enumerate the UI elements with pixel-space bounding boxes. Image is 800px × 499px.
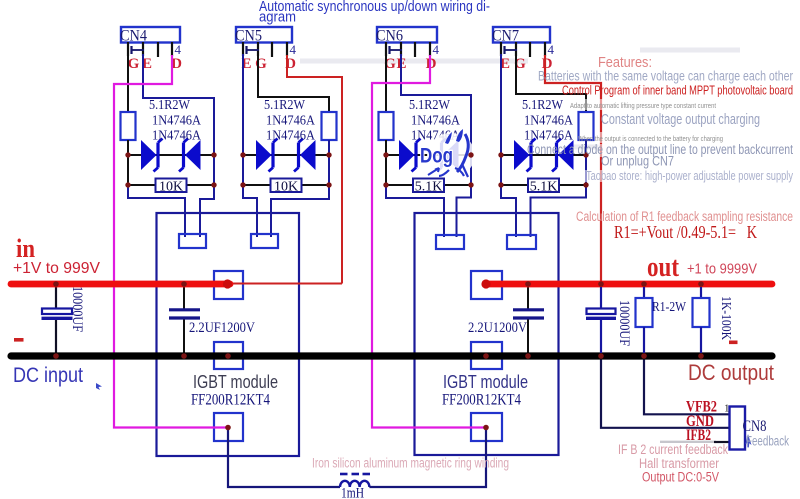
svg-text:out: out bbox=[647, 252, 680, 283]
svg-text:Iron silicon aluminum magnetic: Iron silicon aluminum magnetic ring wind… bbox=[312, 456, 509, 471]
watermark white bands bbox=[566, 99, 795, 182]
wire CN4-G left rail bbox=[127, 54, 129, 113]
wire GND sense from output cap node to CN8 bbox=[601, 360, 729, 428]
CN5 pin 2 (G) bbox=[257, 42, 259, 56]
inductor L1 1mH bbox=[340, 474, 370, 487]
svg-text:Adapt to automatic lifting pre: Adapt to automatic lifting pressure type… bbox=[570, 101, 717, 110]
junction dots on red bus bbox=[53, 281, 704, 287]
svg-text:+1 to 9999V: +1 to 9999V bbox=[687, 262, 757, 278]
svg-text:5.1R2W: 5.1R2W bbox=[264, 98, 306, 113]
wire CN5-G top bend to right rail bbox=[258, 54, 329, 113]
resistor 10K (CN5) bbox=[271, 179, 302, 195]
CN7 pin 3 bbox=[529, 42, 531, 57]
capacitor C4 wire bottom bbox=[600, 320, 602, 353]
svg-text:5.1R2W: 5.1R2W bbox=[522, 98, 564, 113]
U2 collector terminal box bbox=[471, 271, 502, 299]
resistor 10K row wire N2 bbox=[243, 184, 329, 186]
svg-text:10K: 10K bbox=[274, 180, 298, 195]
svg-text:DC input: DC input bbox=[13, 364, 83, 387]
svg-text:10000UF: 10000UF bbox=[616, 300, 632, 346]
watermark Dog bbox=[420, 129, 475, 177]
svg-text:Constant voltage output chargi: Constant voltage output charging bbox=[601, 112, 760, 128]
wire left rail N3 lower bbox=[386, 185, 444, 237]
svg-text:FF200R12KT4: FF200R12KT4 bbox=[191, 392, 270, 409]
svg-text:Control Program of inner band: Control Program of inner band MPPT photo… bbox=[562, 84, 793, 98]
svg-text:1N4746A: 1N4746A bbox=[266, 114, 316, 129]
svg-text:5.1K: 5.1K bbox=[530, 180, 558, 195]
U1 collector terminal box bbox=[214, 271, 243, 299]
bus DC output + (thick red) bbox=[486, 281, 772, 288]
zener row wire N4 bbox=[501, 154, 586, 156]
wire left rail N4 lower bbox=[501, 185, 516, 237]
resistor 5.1R2W (CN4 gate) bbox=[121, 112, 136, 140]
capacitor C4 10000UF plates bbox=[586, 309, 616, 319]
svg-text:CN8: CN8 bbox=[743, 418, 767, 435]
svg-text:1N4746A: 1N4746A bbox=[411, 114, 461, 129]
zener row wire N2 bbox=[243, 154, 329, 156]
svg-text:Taobao store: high-power adjus: Taobao store: high-power adjustable powe… bbox=[586, 169, 794, 183]
resistor 5.1K row wire N3 bbox=[386, 184, 471, 186]
svg-text:G: G bbox=[255, 56, 267, 72]
svg-text:10K: 10K bbox=[159, 180, 183, 195]
CN6 pin 4 (D) bbox=[429, 42, 431, 56]
svg-text:G: G bbox=[128, 56, 140, 72]
wire CN5-D drive (red) to input+ rail bbox=[287, 55, 342, 284]
IGBT module U2 outline FF200R12KT4 bbox=[415, 213, 559, 455]
svg-text:4: 4 bbox=[175, 42, 182, 57]
capacitor C4 10000UF output wire top bbox=[600, 287, 602, 309]
svg-text:R1=+Vout /0.49-5.1= K: R1=+Vout /0.49-5.1= K bbox=[614, 222, 757, 242]
CN4 pin 3 bbox=[157, 42, 159, 57]
resistor 5.1R2W (CN6 gate) bbox=[379, 112, 394, 140]
CN7 pin 4 (D) bbox=[544, 42, 546, 56]
svg-text:2.2UF1200V: 2.2UF1200V bbox=[189, 320, 255, 336]
junction dots gate networks bbox=[125, 152, 588, 187]
cursor mark near DC input bbox=[96, 383, 102, 390]
wire below gate resistor CN7 bbox=[585, 140, 587, 156]
wire VFB2 sense from R1 to CN8 bbox=[644, 360, 729, 415]
wire U1 emitter down to inductor bbox=[228, 428, 340, 488]
connector CN7 bbox=[492, 27, 550, 45]
svg-text:IGBT module: IGBT module bbox=[193, 371, 278, 392]
svg-text:in: in bbox=[16, 234, 35, 263]
wire left rail N1 lower bbox=[128, 185, 185, 237]
resistor 5.1K (CN6) bbox=[413, 179, 444, 195]
wire CN7-G top bend to right rail bbox=[516, 54, 586, 113]
bus DC minus (thick black) bbox=[11, 352, 772, 359]
wire CN4-E top bend to right rail bbox=[143, 54, 214, 156]
cursor arrow near CN8 bbox=[745, 434, 751, 448]
zener pair 1N4746A (CN4) bbox=[141, 139, 201, 172]
U1 midpoint terminal box bbox=[214, 342, 243, 369]
junction dots on black bus bbox=[53, 353, 704, 359]
bus DC input + (thick red) bbox=[11, 281, 230, 288]
CN4 pin-1 polarity mark bbox=[132, 46, 145, 54]
U1 emitter terminal box bbox=[214, 413, 243, 441]
wire below gate resistor CN5 bbox=[328, 140, 330, 156]
svg-text:CN6: CN6 bbox=[376, 28, 403, 45]
connector CN5 bbox=[235, 27, 292, 45]
resistor R1-2W wire top bbox=[643, 287, 645, 298]
svg-text:IF B 2 current feedback: IF B 2 current feedback bbox=[618, 442, 728, 457]
CN6 pin-1 polarity mark bbox=[390, 46, 403, 54]
wire CN5-E left rail bbox=[242, 54, 244, 186]
CN7 pin-1 polarity mark bbox=[505, 46, 518, 54]
svg-text:5.1K: 5.1K bbox=[415, 180, 443, 195]
wire CN6-D drive (magenta) to U2 emitter node bbox=[372, 55, 486, 428]
U1 gate terminal box left bbox=[179, 234, 206, 248]
capacitor C3 10000UF plates bbox=[42, 309, 73, 319]
value label 5.1R2W / 1N4746A / 1N4746A (CN5) bbox=[264, 98, 316, 144]
watermark faint streaks (background) bbox=[300, 50, 740, 147]
CN5 pin 1 (E) bbox=[242, 42, 244, 56]
connector CN4 bbox=[120, 27, 180, 45]
wire left rail N2 lower bbox=[243, 185, 257, 237]
svg-text:FF200R12KT4: FF200R12KT4 bbox=[442, 392, 521, 409]
svg-text:Feedback: Feedback bbox=[746, 434, 789, 449]
label minus input bbox=[14, 338, 24, 342]
wire below gate resistor CN6 bbox=[385, 140, 387, 186]
resistor R2 1K-100K wire top bbox=[700, 287, 702, 298]
svg-text:10000UF: 10000UF bbox=[69, 286, 85, 332]
svg-text:1: 1 bbox=[724, 403, 730, 415]
value label 5.1R2W / 1N4746A / 1N4746A (CN6) bbox=[409, 98, 461, 144]
resistor 5.1R2W (CN7 gate) bbox=[579, 112, 594, 140]
svg-text:1K-100K: 1K-100K bbox=[718, 296, 733, 340]
CN7 pin 1 (E) bbox=[500, 42, 502, 56]
zener row wire N1 bbox=[128, 154, 214, 156]
U2 emitter terminal box bbox=[471, 413, 502, 441]
svg-text:R1-2W: R1-2W bbox=[652, 300, 687, 315]
resistor 5.1R2W (CN5 gate) bbox=[322, 112, 337, 140]
zener pair 1N4746A (CN6) bbox=[399, 139, 459, 172]
resistor 5.1K row wire N4 bbox=[501, 184, 586, 186]
svg-text:CN4: CN4 bbox=[120, 28, 147, 45]
svg-text:1N4746A: 1N4746A bbox=[152, 114, 202, 129]
zener pair 1N4746A (CN5) bbox=[256, 139, 316, 172]
svg-text:5.1R2W: 5.1R2W bbox=[149, 98, 191, 113]
svg-text:1N4746A: 1N4746A bbox=[524, 114, 574, 129]
svg-text:Output DC:0-5V: Output DC:0-5V bbox=[642, 470, 719, 485]
svg-text:Batteries with the same voltag: Batteries with the same voltage can char… bbox=[538, 69, 793, 84]
svg-text:CN7: CN7 bbox=[492, 28, 519, 45]
CN6 pin 3 bbox=[414, 42, 416, 57]
U2 gate terminal box left bbox=[436, 235, 464, 249]
wire CN7-D drive (red) to output+ rail bbox=[545, 55, 601, 284]
wire thin red collector link U1 bbox=[227, 283, 342, 285]
CN4 pin 1 (G) bbox=[127, 42, 129, 56]
wire inductor to U2 emitter bbox=[369, 428, 486, 488]
svg-text:Or unplug CN7: Or unplug CN7 bbox=[601, 153, 674, 169]
wire right rail N4 lower bbox=[531, 155, 587, 237]
svg-text:1N4746A: 1N4746A bbox=[266, 129, 316, 144]
label minus output bbox=[729, 341, 738, 345]
svg-text:CN5: CN5 bbox=[235, 28, 262, 45]
value label 5.1R2W / 1N4746A / 1N4746A (CN4) bbox=[149, 98, 202, 144]
capacitor C3 10000UF input wire top bbox=[55, 284, 57, 309]
node U2 collector / out+ (big red dot) bbox=[481, 279, 490, 288]
svg-text:4: 4 bbox=[433, 42, 440, 57]
CN5 pin 3 bbox=[271, 42, 273, 57]
resistor 10K row wire N1 bbox=[128, 184, 214, 186]
IGBT module U1 outline FF200R12KT4 bbox=[157, 213, 300, 456]
zener row wire N3 bbox=[386, 154, 471, 156]
wire CN6-E top bend to right rail bbox=[401, 54, 471, 156]
svg-text:5.1R2W: 5.1R2W bbox=[409, 98, 451, 113]
resistor R2 (1K-100K) bbox=[693, 298, 710, 327]
wire right rail N3 lower bbox=[457, 155, 472, 237]
capacitor C2 2.2U1200V (U2) wire bbox=[513, 287, 544, 353]
svg-text:1N4746A: 1N4746A bbox=[152, 129, 202, 144]
resistor 10K (CN4) bbox=[156, 179, 187, 195]
node U1 collector (big red dot) bbox=[223, 279, 232, 288]
wire right rail N2 lower bbox=[271, 155, 329, 237]
resistor 5.1K (CN7) bbox=[528, 179, 559, 195]
wire CN6-G left rail bbox=[385, 54, 387, 113]
CN6 pin 2 (E) bbox=[400, 42, 402, 56]
CN5 pin 4 (D) bbox=[286, 42, 288, 56]
connector CN6 bbox=[376, 27, 437, 45]
wire below gate resistor CN4 bbox=[127, 140, 129, 186]
svg-text:+1V to 999V: +1V to 999V bbox=[13, 260, 100, 277]
capacitor C1 2.2UF1200V (U1) wire bbox=[169, 287, 200, 353]
svg-text:4: 4 bbox=[290, 42, 297, 57]
svg-text:2.2U1200V: 2.2U1200V bbox=[468, 320, 527, 336]
U2 gate terminal box right bbox=[507, 235, 536, 249]
resistor R2 wire bottom bbox=[700, 327, 702, 353]
CN6 pin 1 (G) bbox=[385, 42, 387, 56]
svg-text:IGBT module: IGBT module bbox=[443, 371, 528, 392]
wire right rail N1 lower bbox=[200, 155, 214, 237]
svg-text:4: 4 bbox=[548, 42, 555, 57]
value label 5.1R2W / 1N4746A / 1N4746A (CN7) bbox=[522, 98, 574, 144]
CN4 pin 4 (D) bbox=[171, 42, 173, 56]
CN4 pin 2 (E) bbox=[142, 42, 144, 56]
wire IFB2 stub to CN8 bbox=[714, 441, 729, 443]
resistor R1 wire bottom bbox=[643, 327, 645, 353]
svg-text:agram: agram bbox=[259, 10, 296, 26]
wire IFB2 watermark-faded segment bbox=[660, 441, 716, 443]
connector CN8 bbox=[730, 407, 746, 450]
resistor R1 (R1-2W) bbox=[636, 298, 653, 327]
zener pair 1N4746A (CN7) bbox=[514, 139, 574, 172]
capacitor C3 wire bottom bbox=[55, 320, 57, 356]
svg-text:DC output: DC output bbox=[688, 360, 774, 385]
svg-text:1mH: 1mH bbox=[341, 486, 364, 499]
svg-text:Dog: Dog bbox=[420, 145, 453, 168]
node U2 emitter junction bbox=[483, 425, 489, 431]
U2 midpoint terminal box bbox=[471, 342, 502, 369]
CN7 pin 2 (G) bbox=[515, 42, 517, 56]
CN5 pin-1 polarity mark bbox=[247, 46, 260, 54]
U1 gate terminal box right bbox=[251, 234, 278, 248]
node U1 emitter junction bbox=[225, 425, 231, 431]
wire CN7-E left rail bbox=[500, 54, 502, 186]
wire CN4-D drive (magenta) to U1 emitter node bbox=[114, 55, 228, 428]
